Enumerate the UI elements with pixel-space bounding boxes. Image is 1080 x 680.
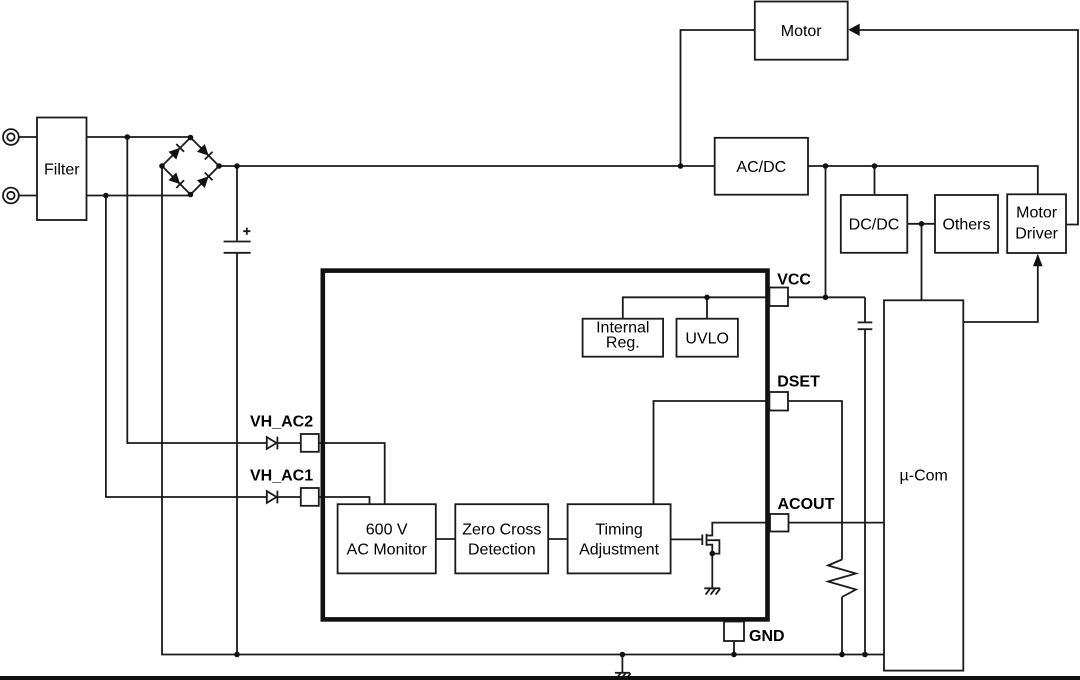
pin DSET bbox=[769, 392, 788, 411]
block Motor Driver bbox=[1007, 194, 1066, 253]
svg-text:Others: Others bbox=[942, 217, 990, 234]
capacitor C1 (bulk, polarized) bbox=[224, 228, 251, 253]
block Timing Adjustment bbox=[568, 504, 671, 573]
wire bbox=[788, 296, 865, 298]
IC U1 (thick box) bbox=[323, 271, 768, 620]
node bbox=[872, 163, 878, 169]
wire bbox=[106, 196, 266, 498]
svg-text:Adjustment: Adjustment bbox=[579, 542, 660, 559]
node bbox=[216, 163, 222, 169]
pin GND bbox=[724, 622, 744, 642]
block u-Com bbox=[884, 300, 963, 670]
wire bbox=[87, 195, 191, 197]
wire bbox=[874, 166, 876, 195]
pin ACOUT bbox=[770, 514, 789, 532]
wire bbox=[733, 641, 735, 655]
node bbox=[234, 163, 240, 169]
wire bbox=[19, 195, 37, 197]
ground (earth, bottom) bbox=[615, 673, 631, 679]
block 600 V AC Monitor bbox=[338, 504, 436, 573]
diode D2 (VH_AC2) bbox=[267, 437, 301, 450]
svg-text:VH_AC1: VH_AC1 bbox=[250, 467, 313, 484]
wire DSET internal bbox=[654, 401, 770, 505]
pin VH_AC2 bbox=[301, 434, 319, 452]
node bbox=[731, 652, 737, 658]
node bbox=[678, 163, 684, 169]
wire bbox=[860, 30, 1079, 225]
diode D1 (VH_AC1) bbox=[267, 491, 301, 504]
node bbox=[159, 163, 165, 169]
wire bbox=[436, 538, 456, 540]
node bbox=[839, 652, 845, 658]
svg-text:Driver: Driver bbox=[1015, 226, 1058, 243]
diode bridge DB1 bbox=[162, 138, 219, 195]
wire bbox=[127, 137, 266, 443]
wire bbox=[864, 297, 866, 321]
node bbox=[823, 295, 829, 301]
block Filter bbox=[37, 118, 87, 221]
svg-text:DC/DC: DC/DC bbox=[849, 217, 900, 234]
svg-text:VCC: VCC bbox=[777, 272, 811, 289]
block UVLO bbox=[677, 319, 738, 357]
wire bbox=[825, 166, 827, 297]
wire bbox=[921, 224, 923, 300]
node bbox=[823, 163, 829, 169]
svg-text:ACOUT: ACOUT bbox=[778, 496, 835, 513]
svg-text:µ-Com: µ-Com bbox=[900, 468, 948, 485]
wire bbox=[236, 166, 238, 241]
arrowhead into Motor Driver bbox=[1033, 254, 1043, 266]
diode bridge D-LB bbox=[169, 173, 181, 185]
svg-text:Filter: Filter bbox=[44, 161, 80, 178]
svg-text:AC/DC: AC/DC bbox=[736, 159, 786, 176]
node bbox=[125, 134, 131, 140]
block AC/DC bbox=[715, 138, 808, 195]
bottom border bar bbox=[0, 676, 1080, 680]
wire bbox=[219, 165, 715, 167]
node bbox=[188, 135, 194, 141]
wire bbox=[864, 330, 866, 655]
capacitor C2 (VCC bypass) bbox=[858, 322, 873, 329]
svg-text:Motor: Motor bbox=[1016, 205, 1058, 222]
wire bbox=[907, 223, 935, 225]
svg-text:Detection: Detection bbox=[468, 542, 536, 559]
diode bridge D-TR bbox=[197, 144, 209, 156]
svg-text:AC Monitor: AC Monitor bbox=[347, 542, 428, 559]
block Zero Cross Detection bbox=[455, 504, 548, 573]
wire UVLO internal bbox=[706, 297, 708, 318]
wire bbox=[236, 254, 238, 655]
resistor R1 (DSET) bbox=[828, 560, 856, 598]
node bbox=[704, 295, 710, 301]
block Motor bbox=[755, 2, 848, 60]
wire bbox=[789, 522, 885, 524]
ground (MOSFET source) bbox=[704, 588, 720, 594]
svg-text:GND: GND bbox=[749, 628, 785, 645]
node bbox=[234, 652, 240, 658]
pin VH_AC1 bbox=[301, 488, 319, 506]
arrowhead into Motor bbox=[848, 24, 859, 36]
transistor Q1 (NMOS) bbox=[702, 523, 770, 589]
svg-text:Zero Cross: Zero Cross bbox=[462, 522, 541, 539]
diode bridge D-LT bbox=[169, 148, 181, 160]
wire bbox=[162, 166, 884, 655]
diode bridge D-BR bbox=[197, 176, 209, 188]
wire bbox=[681, 30, 755, 166]
wire VCC internal bbox=[623, 297, 770, 318]
svg-text:DSET: DSET bbox=[777, 373, 820, 390]
node bbox=[862, 652, 868, 658]
block Internal Reg. bbox=[583, 319, 664, 357]
svg-text:Timing: Timing bbox=[595, 522, 642, 539]
svg-text:UVLO: UVLO bbox=[685, 331, 729, 348]
node bbox=[620, 652, 626, 658]
terminal (AC input 1) bbox=[3, 129, 19, 145]
node bbox=[919, 221, 925, 227]
block DC/DC bbox=[841, 195, 908, 253]
wire VH_AC1 internal bbox=[319, 497, 370, 505]
svg-text:600 V: 600 V bbox=[366, 522, 408, 539]
wire bbox=[963, 266, 1038, 322]
svg-text:Reg.: Reg. bbox=[606, 335, 640, 352]
terminal (AC input 2) bbox=[3, 188, 19, 204]
svg-text:VH_AC2: VH_AC2 bbox=[250, 414, 313, 431]
wire bbox=[808, 166, 1038, 194]
wire bbox=[788, 401, 842, 560]
pin VCC bbox=[769, 288, 788, 307]
block Others bbox=[935, 195, 998, 253]
wire gate bbox=[671, 538, 702, 540]
node bbox=[188, 192, 194, 198]
wire bbox=[841, 597, 843, 655]
svg-text:Motor: Motor bbox=[781, 23, 823, 40]
wire VH_AC2 internal bbox=[319, 443, 385, 505]
wire bbox=[621, 655, 623, 673]
node bbox=[103, 193, 109, 199]
wire bbox=[548, 538, 567, 540]
wire bbox=[19, 136, 37, 138]
wire bbox=[87, 136, 191, 138]
